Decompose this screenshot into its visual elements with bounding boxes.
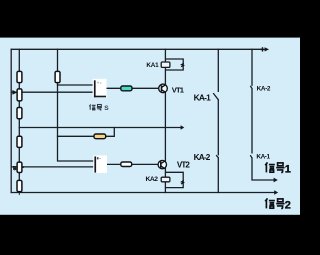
svg-text:VT2: VT2 xyxy=(177,160,191,169)
svg-text:KA-1: KA-1 xyxy=(194,92,211,102)
svg-text:S: S xyxy=(104,105,109,112)
svg-text:KA1: KA1 xyxy=(146,62,159,69)
svg-text:2: 2 xyxy=(285,200,291,212)
svg-text:KA2: KA2 xyxy=(146,176,159,183)
svg-text:P: P xyxy=(13,166,17,172)
svg-text:1: 1 xyxy=(285,164,291,176)
svg-text:KA-1: KA-1 xyxy=(256,154,270,161)
svg-text:KA-2: KA-2 xyxy=(257,85,271,92)
svg-text:KA-2: KA-2 xyxy=(194,153,211,162)
svg-text:VT1: VT1 xyxy=(172,86,185,95)
